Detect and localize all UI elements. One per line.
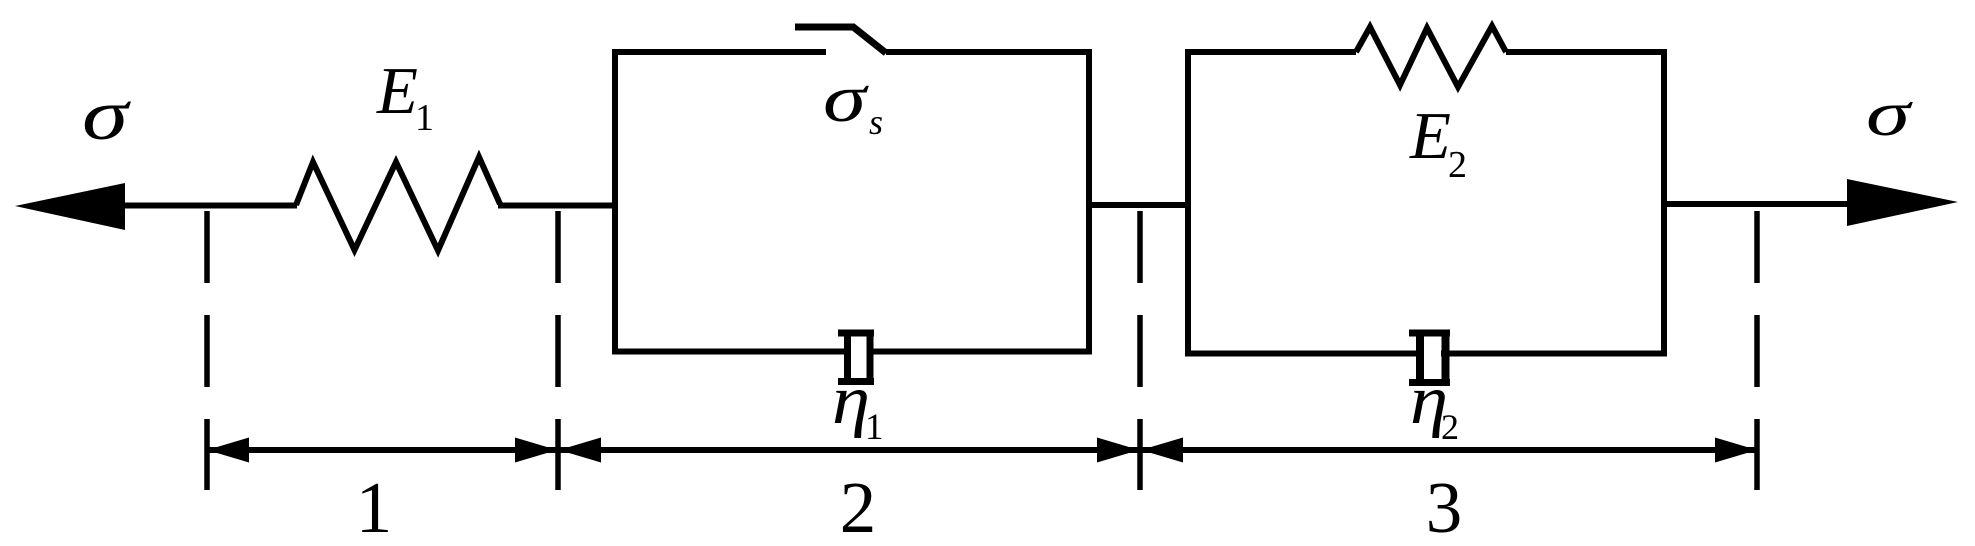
dashpot eta2: [1409, 330, 1450, 387]
dashed separator line 2: [555, 211, 561, 490]
spring E1: [296, 157, 500, 251]
svg-text:2: 2: [1441, 407, 1459, 447]
unit-3 frame: [1188, 52, 1664, 354]
svg-text:σ: σ: [823, 60, 869, 136]
dimension arrowhead at x=1757 pointing right: [1715, 438, 1757, 463]
svg-text:1: 1: [356, 467, 393, 546]
dimension line: [207, 447, 1757, 453]
friction slider (switch) contact bar: [795, 24, 854, 31]
dashed separator line 4: [1754, 211, 1760, 490]
dashed separator line 1: [204, 211, 210, 490]
svg-text:2: 2: [1448, 144, 1467, 186]
dimension arrowheads bowtie at x=1140: [1097, 438, 1139, 463]
svg-text:1: 1: [415, 97, 434, 139]
wire: unit-3 to right arrow: [1664, 201, 1852, 207]
friction slider blade: [852, 26, 886, 53]
svg-text:E: E: [1409, 99, 1451, 173]
wire: unit-2 to unit-3: [1089, 202, 1191, 208]
svg-text:1: 1: [865, 407, 884, 448]
svg-text:σ: σ: [1866, 78, 1913, 149]
unit-2 frame: [615, 52, 1089, 352]
left stress arrow: [15, 183, 125, 230]
svg-text:s: s: [869, 102, 883, 142]
dimension arrowheads bowtie at x=558: [515, 438, 557, 463]
wire: spring E1 to unit-2 frame: [498, 203, 618, 209]
dashpot eta1: [838, 330, 874, 386]
dimension arrowhead at x=207 pointing left: [207, 438, 249, 463]
svg-text:3: 3: [1426, 467, 1463, 546]
svg-text:σ: σ: [82, 75, 131, 155]
wire: left arrow to spring E1: [120, 203, 297, 209]
svg-text:2: 2: [840, 467, 877, 546]
dashed separator line 3: [1137, 211, 1143, 490]
svg-text:E: E: [376, 54, 418, 128]
right stress arrow: [1847, 179, 1958, 226]
spring E2: [1356, 26, 1506, 87]
